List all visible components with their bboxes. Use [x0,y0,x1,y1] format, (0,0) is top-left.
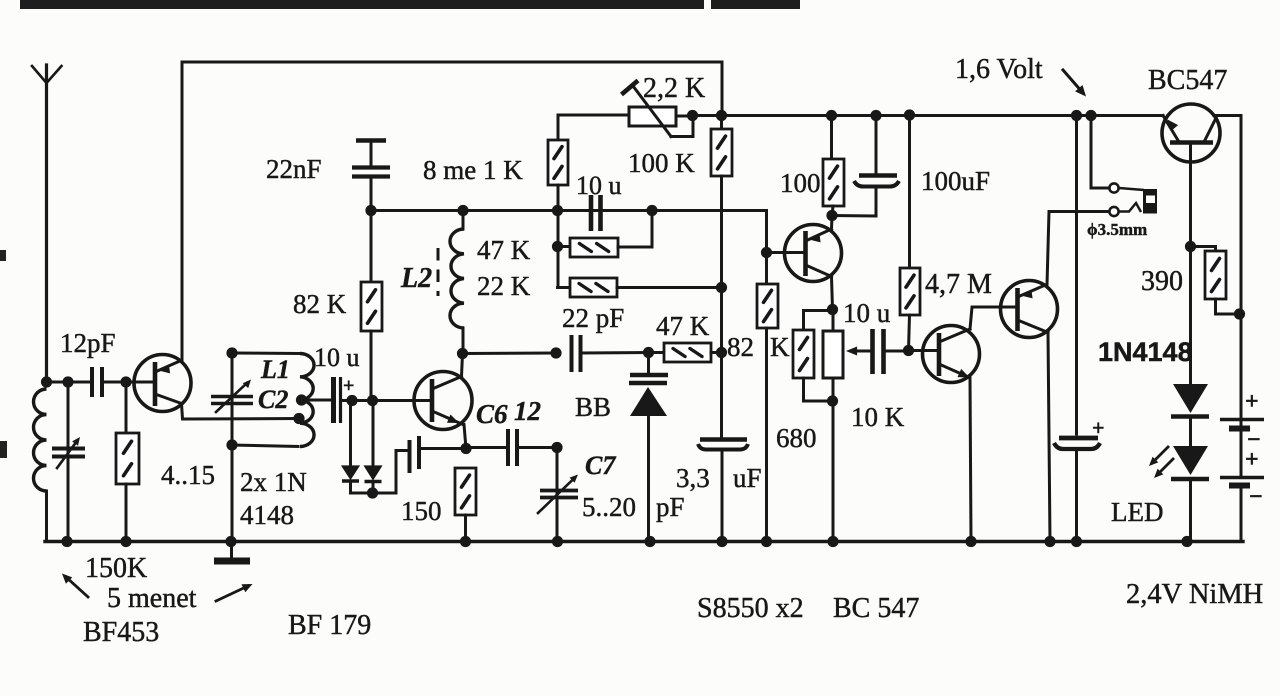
svg-text:22 pF: 22 pF [562,303,624,333]
node gnd Q4 [1044,536,1055,547]
svg-text:4..15: 4..15 [161,460,215,490]
label 5..20 [582,492,636,522]
label L2 [400,263,432,294]
svg-text:2,4V NiMH: 2,4V NiMH [1126,579,1263,610]
svg-text:10 K: 10 K [851,402,905,432]
wire bus y210 [371,211,767,254]
label plus cell2 [1245,447,1259,473]
svg-text:1,6 Volt: 1,6 Volt [955,54,1043,85]
label 22 pF [562,303,624,333]
node gnd tank [225,536,236,547]
svg-text:LED: LED [1111,497,1163,527]
wire trimmer stub [67,382,70,541]
resistor 100 [823,116,844,216]
label 2,2 K [643,73,705,104]
node 390 top [1185,241,1196,252]
label BB [575,392,611,422]
svg-text:1N4148: 1N4148 [1098,337,1193,367]
svg-text:K: K [770,332,790,362]
node rail electrolytic branch [1071,110,1082,121]
node gnd 150 [460,536,471,547]
wire ground rail [45,540,1243,543]
svg-text:12: 12 [514,396,541,426]
label 10 K [851,402,905,432]
svg-text:100uF: 100uF [921,166,990,196]
resistor 47K lower [649,343,723,362]
arrow 1,6 Volt [1063,70,1086,97]
wire antenna node to 12pF [47,381,92,384]
resistor 390 [1191,247,1240,315]
label 5 menet [107,583,197,614]
label 1,6 Volt [955,54,1043,85]
svg-text:100 K: 100 K [628,148,695,178]
label C7 [585,451,616,480]
inductor L2 [450,211,464,353]
svg-text:150: 150 [401,496,442,526]
node 100uF top rail [870,110,881,121]
node Q2 emitter [826,210,837,221]
svg-text:82: 82 [727,332,754,362]
label 8 me 1 K [423,155,523,185]
label BF 179 [288,610,371,641]
label 100uF [921,166,990,196]
node gnd LED [1181,536,1192,547]
node 10K pot bottom [827,395,838,406]
label plus 10u input [343,375,354,397]
capacitor 10u input [334,377,341,423]
svg-text:uF: uF [733,463,762,493]
diode D3 1N4148 [1171,384,1209,446]
svg-text:82 K: 82 K [293,289,347,319]
inductor L1 [300,354,314,447]
variable capacitor C2 4..15 [211,353,253,445]
node Q2 collector [827,304,838,315]
potentiometer 2,2K [558,81,693,137]
wire diodes bottom to cap [351,451,407,494]
node tank top [226,347,237,358]
connector jack terminal top [1109,183,1118,192]
svg-text:22 K: 22 K [477,271,531,301]
wire C6 emitter down [464,425,466,449]
scan artifact tick left edge lower [0,441,7,458]
svg-text:S8550 x2: S8550 x2 [697,593,804,624]
scan artifact bar top-right [711,0,800,9]
label 2,4V NiMH [1126,579,1263,610]
capacitor 3,3uF [698,440,748,542]
node gnd 10K pot [827,536,838,547]
node diode D1 top [346,395,357,406]
svg-text:C2: C2 [258,385,288,414]
node C6 collector / L2 / 22pF junction [457,348,468,359]
connector jack terminal bottom [1109,207,1118,216]
wire rail after Q5 [1214,116,1241,419]
wire L2 bottom to 22pF [463,352,557,356]
resistor 82K base [757,253,778,542]
label 1N4148 [1098,337,1193,367]
svg-text:22nF: 22nF [266,154,322,184]
label 10 u stage2 [843,298,891,328]
wire L1 tap to 10u [302,399,331,402]
svg-text:8 me 1 K: 8 me 1 K [423,155,523,185]
label 12pF [60,328,116,358]
node 4,7M bottom [903,345,914,356]
node 100 top rail [826,110,837,121]
node gnd Q3 [965,536,976,547]
label C2 [258,385,288,414]
node diode D2 top [367,395,378,406]
svg-text:4,7 M: 4,7 M [925,269,992,300]
svg-text:390: 390 [1141,266,1183,297]
svg-text:−: − [1249,484,1263,510]
svg-text:ϕ3.5mm: ϕ3.5mm [1087,220,1147,239]
label 82 K left [293,289,347,319]
svg-text:2,2 K: 2,2 K [643,73,705,104]
resistor 150 [455,468,476,541]
node diodes bottom [367,487,378,498]
svg-text:10 u: 10 u [576,171,622,200]
node base/150K junction [120,376,131,387]
node rail jack branch [1085,110,1096,121]
wire Q1 collector down [182,404,300,420]
label 4,7 M [925,269,992,300]
node 22K right / 100K line [716,282,727,293]
label uF [733,463,762,493]
node gnd 3,3uF [716,536,727,547]
svg-text:10 u: 10 u [843,298,891,328]
svg-text:+: + [1245,447,1259,473]
node Q2 base [761,247,772,258]
label 390 [1141,266,1183,297]
svg-text:10 u: 10 u [314,343,360,372]
capacitor 12pF [92,367,102,397]
transistor Q1 BF453 [132,355,191,412]
node gnd electrolytic [1071,536,1082,547]
label 680 [776,423,817,453]
potentiometer 10K [823,310,843,542]
wire Q1 emitter to top rail [181,62,184,361]
transistor Q2 S8550 [767,225,842,282]
svg-text:47 K: 47 K [477,235,531,265]
label 3,3 [676,463,710,493]
wire Q4 collector down [1048,333,1050,542]
wire tank bottom [232,445,298,447]
wire between cells [1240,430,1243,476]
resistor 680 [793,311,833,402]
svg-text:100: 100 [780,168,821,198]
label 4..15 [161,460,215,490]
node 10u right on bus [646,205,657,216]
capacitor 100uF [832,116,899,217]
node 100K top [716,110,727,121]
node 4,7M top rail [904,109,915,120]
transistor C6 BF179 [414,372,472,430]
connector jack plug [1143,189,1157,214]
capacitor electrolytic output [1054,116,1100,542]
label 10u input [314,343,360,372]
antenna ANT [32,65,62,381]
diode D2 1N4148 [365,400,382,493]
node 390 bottom [1234,308,1245,319]
svg-text:4148: 4148 [240,500,294,530]
capacitor 22nF [352,141,390,212]
svg-text:+: + [1245,389,1259,415]
svg-text:+: + [1092,415,1105,440]
wire Q2 collector down [832,277,833,310]
capacitor 22pF [572,335,649,372]
svg-text:47 K: 47 K [656,311,710,341]
label BC 547 [833,593,919,624]
resistor 22K [558,278,722,297]
resistor 82K left [361,211,382,401]
label 22 K [477,271,531,301]
label C6 [476,399,508,429]
label 82 Q2 [727,332,754,362]
label BC547 [1148,65,1227,96]
node 47K right / 100K line [716,347,727,358]
label 150 [401,496,442,526]
node L2 top on bus [457,205,468,216]
svg-text:150K: 150K [85,553,147,584]
wire Q3 emitter down [970,378,971,541]
arrow to 150K [62,574,88,598]
node antenna/coil/trimmer junction [41,376,52,387]
svg-text:L1: L1 [260,355,290,384]
label 47 K upper [477,235,531,265]
varicap BB [629,353,668,542]
svg-text:12pF: 12pF [60,328,116,358]
node 1K on bus [552,205,563,216]
wire C6 collector up [462,354,463,377]
wire tank top [232,352,300,356]
wire battery to ground rail [1187,488,1241,542]
resistor 47K upper [558,211,653,258]
node 22pF left [550,347,561,358]
label minus cell1 [1247,427,1261,453]
scan artifact tick left edge upper [0,250,6,261]
wire top rail corner to 100K [721,62,724,116]
resistor 4,7M [900,116,920,351]
resistor 100K [711,116,732,439]
svg-text:BC547: BC547 [1148,65,1227,96]
label plus cell1 [1245,389,1259,415]
node BB varicap top [643,347,654,358]
wire Q3 collector up [970,307,1002,329]
scan artifact bar top-left [20,0,704,9]
label 12 script [514,396,541,426]
label 10 u bus [576,171,622,200]
diode D4 LED [1171,446,1209,541]
wire Q4 emitter up to jack [1047,212,1108,286]
variable capacitor antenna trimmer [52,437,85,468]
label 2x 1N [240,467,307,497]
label minus cell2 [1249,484,1263,510]
label 47 K lower [656,311,710,341]
capacitor 10u stage2 [846,329,909,374]
svg-text:BF 179: BF 179 [288,610,371,641]
node gnd 150K [120,536,131,547]
svg-text:5 menet: 5 menet [107,583,197,614]
resistor 150K [116,382,139,541]
inductor antenna coil 5 menet [34,389,47,541]
variable capacitor C7 5..20pF [538,448,578,542]
node trimmer tap [62,376,73,387]
wire Q5 down [1189,142,1192,384]
node C7 top [551,442,562,453]
label 4148 [240,500,294,530]
label LED [1111,497,1163,527]
capacitor 10u bus [591,195,601,231]
label pF C7 [656,492,685,522]
core dashed line L2 [437,248,440,296]
label K Q2 [770,332,790,362]
wire top rail [182,61,722,64]
svg-text:BC 547: BC 547 [833,593,919,624]
resistor 1K [548,115,568,288]
wire supply rail [693,114,1164,117]
svg-text:C7: C7 [585,451,616,480]
svg-text:3,3: 3,3 [676,463,710,493]
wire 10u out to C6 base [341,399,418,402]
node 22nF bottom / 82K top [365,205,376,216]
node gnd trimmer [61,536,72,547]
node 47K upper left [552,241,563,252]
label 100 [780,168,821,198]
node L1 tap lower [293,413,304,424]
svg-text:680: 680 [776,423,817,453]
label 150K [85,553,147,584]
node L1 tap upper [296,394,307,405]
label S8550 x2 [697,593,804,624]
transistor Q4 S8550 [1001,281,1058,338]
transistor Q5 BC547 [1162,104,1220,162]
node tank bottom [226,439,237,450]
label 100 K [628,148,695,178]
svg-text:BF453: BF453 [83,617,159,648]
battery cell2 [1220,478,1264,486]
wire tank bottom to ground rail [231,445,234,541]
node gnd 82K [761,536,772,547]
battery cell1 [1220,420,1264,429]
label BF453 [83,617,159,648]
capacitor 12 coupling [466,429,557,466]
svg-text:2x 1N: 2x 1N [240,467,307,497]
diode D1 1N4148 [342,400,359,493]
label L1 [260,355,290,384]
capacitor diode coupling [410,436,467,473]
wire jack top feed [1091,116,1108,189]
label 22nF [266,154,322,184]
svg-text:L2: L2 [400,263,432,294]
transistor Q3 BC547 [909,326,980,383]
arrow to ground [216,584,253,601]
connector jack contacts [1119,188,1144,212]
ground symbol [214,542,250,562]
svg-text:C6: C6 [476,399,508,429]
svg-text:5..20: 5..20 [582,492,636,522]
label plus electrolytic [1092,415,1105,440]
wire Q2 emitter up [830,216,834,229]
LED arrows [1149,447,1173,478]
node gnd C7 [552,536,563,547]
svg-text:+: + [343,375,354,397]
wire 12pF to base node [102,381,132,384]
label jack 3.5mm [1087,220,1147,239]
node pot wiper [687,110,698,121]
svg-text:BB: BB [575,392,611,422]
svg-text:pF: pF [656,492,685,522]
node gnd BB [644,536,655,547]
node C6 emitter junction [460,443,471,454]
